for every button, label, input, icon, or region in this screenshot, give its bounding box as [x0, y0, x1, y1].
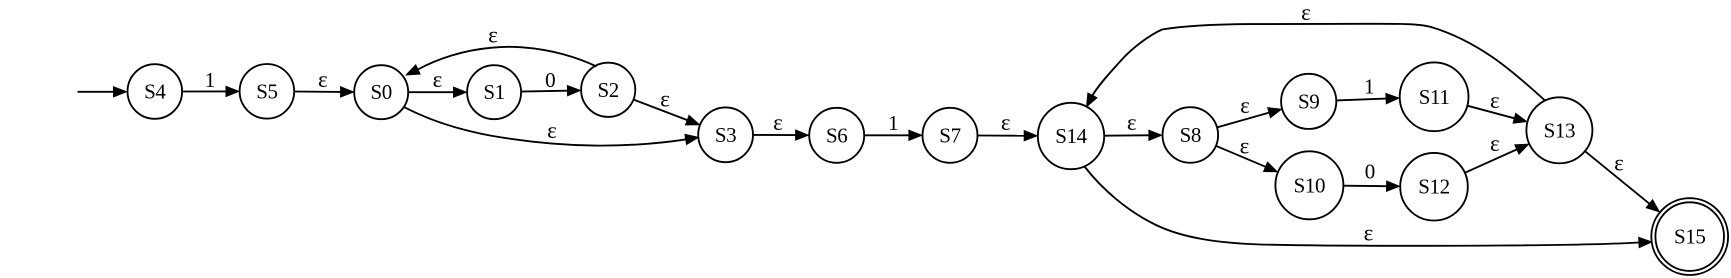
state S0 [354, 65, 408, 119]
edge S1 to S2 label 0 [521, 68, 580, 96]
svg-text:ε: ε [660, 87, 670, 112]
state S3 [698, 107, 753, 162]
svg-text:S7: S7 [939, 123, 960, 147]
start arrow [78, 87, 127, 97]
edge S5 to S0 label epsilon [294, 67, 353, 97]
svg-text:1: 1 [888, 111, 899, 135]
state S15 [1651, 198, 1728, 275]
edge S8 to S10 label epsilon [1216, 133, 1277, 172]
svg-text:S10: S10 [1294, 173, 1325, 197]
svg-text:S6: S6 [826, 123, 847, 147]
state S7 [923, 108, 978, 163]
state S11 [1400, 62, 1469, 131]
edge S13 to S15 label epsilon [1585, 151, 1659, 212]
edge S2 to S3 label epsilon [634, 87, 700, 125]
svg-text:ε: ε [1001, 110, 1011, 135]
svg-text:ε: ε [1490, 88, 1500, 113]
svg-text:S12: S12 [1418, 175, 1449, 199]
svg-text:ε: ε [547, 118, 557, 143]
svg-text:S5: S5 [256, 79, 277, 103]
svg-text:ε: ε [1364, 220, 1374, 245]
svg-text:ε: ε [1127, 110, 1137, 135]
state S5 [240, 64, 295, 119]
state S2 [581, 63, 635, 117]
edge S3 to S6 label epsilon [753, 110, 808, 140]
svg-text:ε: ε [433, 67, 443, 92]
state S12 [1400, 153, 1468, 221]
svg-text:ε: ε [773, 110, 783, 135]
edge S11 to S13 label epsilon [1467, 88, 1526, 123]
svg-text:ε: ε [488, 23, 498, 48]
edge S10 to S12 label 0 [1343, 159, 1399, 191]
svg-text:S3: S3 [715, 123, 736, 147]
edge S14 to S8 label epsilon [1104, 110, 1162, 140]
state S10 [1275, 151, 1343, 219]
edge S13 to S14 label epsilon (big loop back curve) [1087, 0, 1545, 107]
edge S0 to S3 label epsilon (bypass curve) [404, 107, 699, 146]
edge S4 to S5 label 1 [182, 68, 239, 96]
edge S8 to S9 label epsilon [1217, 93, 1281, 127]
edge S0 to S1 label epsilon [408, 67, 466, 97]
edge S6 to S7 label 1 [864, 111, 922, 141]
edge S2 to S0 label epsilon (loop back curve) [406, 23, 596, 75]
svg-text:1: 1 [205, 68, 216, 92]
svg-text:ε: ε [1240, 93, 1250, 118]
state S9 [1281, 74, 1336, 129]
svg-text:S2: S2 [598, 78, 619, 102]
edge S7 to S14 label epsilon [978, 110, 1038, 141]
svg-text:S14: S14 [1055, 124, 1087, 148]
edge S14 to S15 label epsilon (bypass curve) [1085, 167, 1652, 248]
svg-text:S4: S4 [144, 80, 166, 104]
svg-text:S11: S11 [1419, 85, 1450, 109]
svg-text:S0: S0 [371, 80, 392, 104]
svg-text:S8: S8 [1180, 123, 1201, 147]
edge S9 to S11 label 1 [1336, 74, 1399, 103]
state S6 [809, 108, 864, 163]
state S14 [1038, 103, 1104, 169]
svg-text:S1: S1 [483, 80, 504, 104]
state S8 [1163, 107, 1219, 163]
state S4 [128, 64, 183, 119]
svg-text:S9: S9 [1298, 89, 1319, 113]
svg-text:ε: ε [1490, 131, 1500, 156]
svg-text:S15: S15 [1674, 225, 1705, 249]
svg-text:ε: ε [1614, 151, 1624, 176]
state S13 [1526, 97, 1592, 163]
svg-text:ε: ε [1240, 133, 1250, 158]
state S1 [467, 65, 521, 119]
svg-text:0: 0 [1365, 159, 1376, 183]
svg-text:S13: S13 [1544, 118, 1575, 142]
svg-text:ε: ε [1301, 0, 1311, 25]
svg-text:1: 1 [1364, 74, 1375, 98]
svg-text:0: 0 [545, 68, 556, 92]
edge S12 to S13 label epsilon [1465, 131, 1529, 173]
svg-text:ε: ε [318, 67, 328, 92]
